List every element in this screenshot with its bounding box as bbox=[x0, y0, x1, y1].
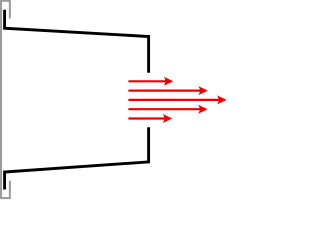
arrow 2 head bbox=[198, 86, 208, 95]
arrow 3 shaft bbox=[128, 99, 221, 101]
arrow 4 shaft bbox=[128, 108, 202, 110]
baffle wall (gray line with top and bottom notches) bbox=[1, 1, 10, 198]
horn lower wall bbox=[5, 127, 149, 189]
arrow 1 shaft bbox=[128, 80, 168, 82]
arrow 3 head bbox=[217, 95, 227, 104]
arrow 5 head bbox=[163, 114, 173, 123]
arrow 1 head bbox=[164, 77, 174, 86]
arrow 5 shaft bbox=[128, 117, 167, 119]
horn upper wall bbox=[5, 10, 149, 73]
arrow 4 head bbox=[198, 105, 208, 114]
arrow 2 shaft bbox=[128, 89, 202, 91]
